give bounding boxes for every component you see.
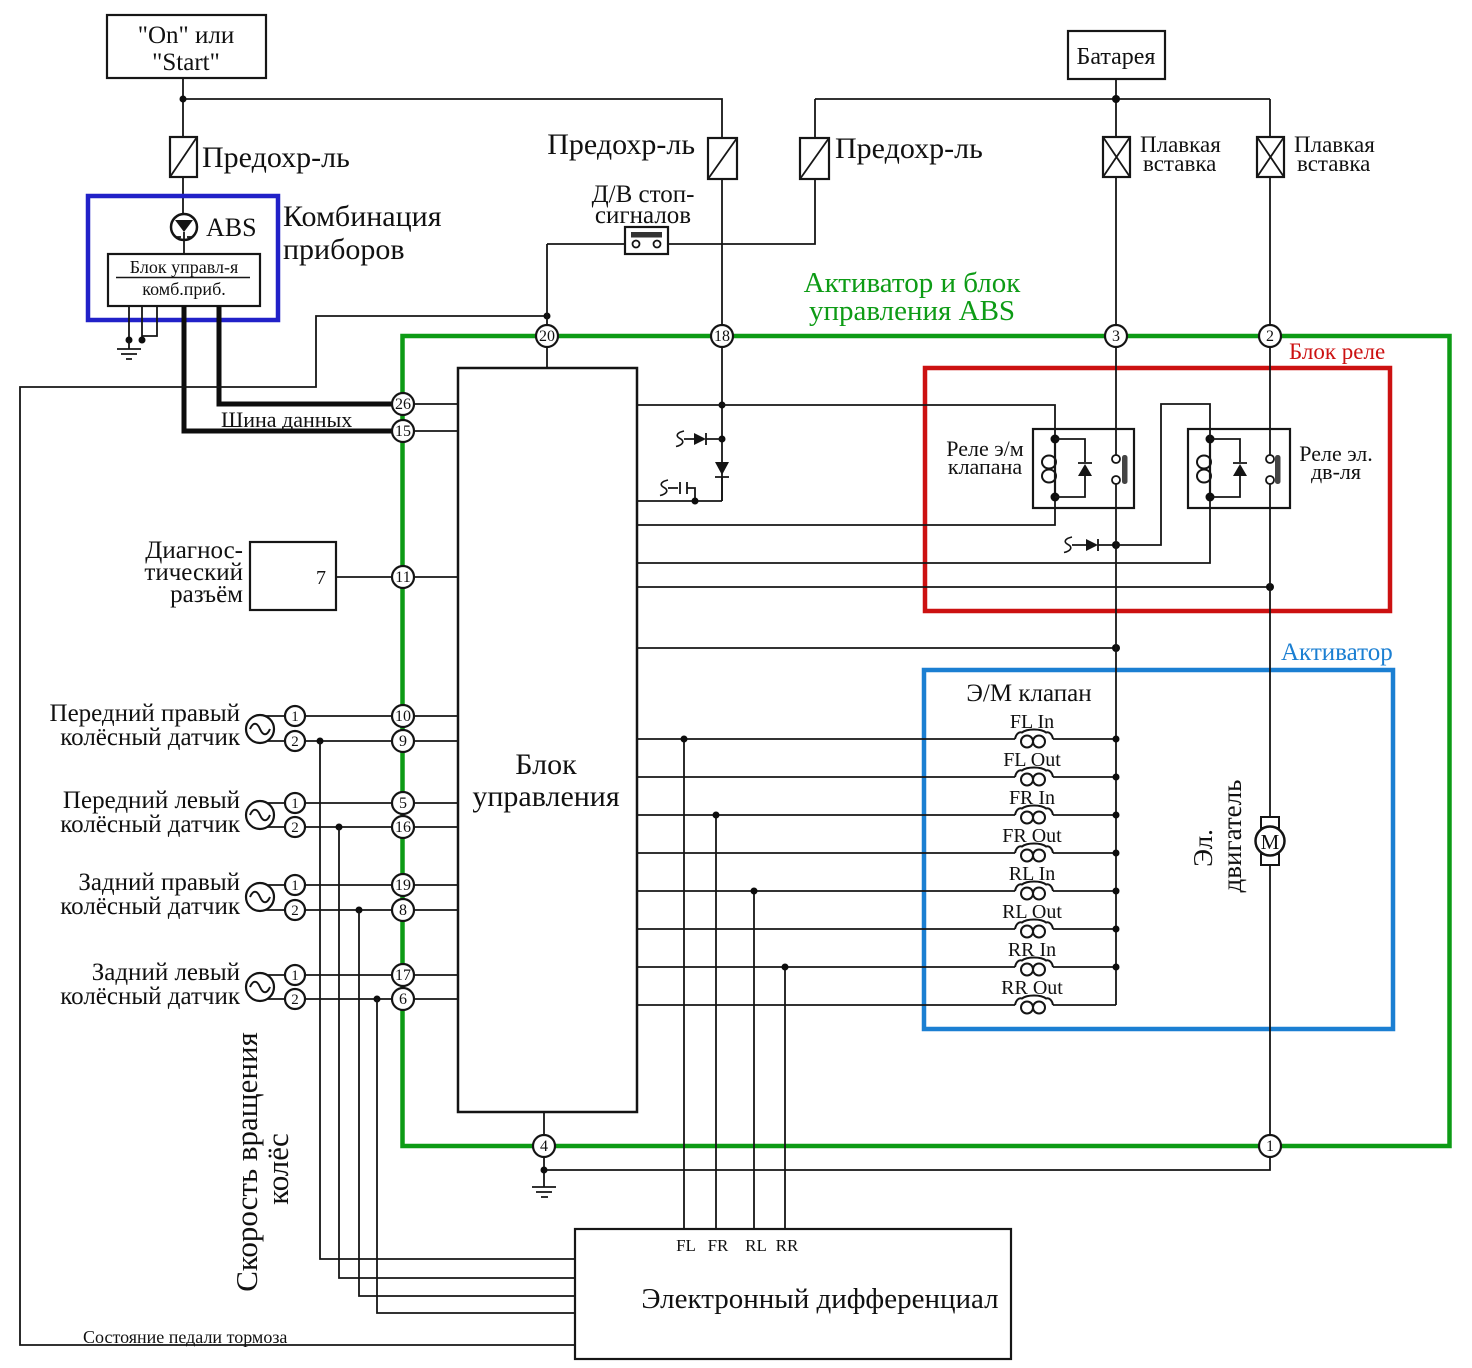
svg-text:Задний правый: Задний правый <box>78 869 240 896</box>
svg-text:управления ABS: управления ABS <box>809 295 1015 327</box>
svg-text:19: 19 <box>395 877 411 894</box>
svg-text:Блок управл-я: Блок управл-я <box>130 257 238 277</box>
svg-text:комб.приб.: комб.приб. <box>142 279 225 299</box>
svg-text:2: 2 <box>291 992 299 1008</box>
svg-text:вставка: вставка <box>1143 151 1216 176</box>
svg-text:Комбинация: Комбинация <box>283 200 442 233</box>
svg-text:15: 15 <box>395 423 411 440</box>
svg-text:Электронный дифференциал: Электронный дифференциал <box>641 1283 998 1315</box>
svg-text:Состояние педали тормоза: Состояние педали тормоза <box>83 1327 287 1347</box>
svg-text:вставка: вставка <box>1297 151 1370 176</box>
svg-text:"Start": "Start" <box>152 49 220 76</box>
svg-text:колёсный датчик: колёсный датчик <box>60 983 241 1010</box>
svg-text:управления: управления <box>472 780 620 813</box>
svg-text:1: 1 <box>291 796 299 812</box>
svg-text:RL In: RL In <box>1009 863 1055 885</box>
svg-text:Блок: Блок <box>515 748 577 781</box>
svg-text:1: 1 <box>291 709 299 725</box>
svg-text:8: 8 <box>399 902 407 919</box>
svg-text:дв-ля: дв-ля <box>1311 459 1361 484</box>
svg-text:1: 1 <box>291 968 299 984</box>
svg-text:M: M <box>1261 830 1280 854</box>
svg-text:Предохр-ль: Предохр-ль <box>202 141 350 174</box>
svg-text:2: 2 <box>291 734 299 750</box>
svg-text:ABS: ABS <box>206 213 257 242</box>
svg-text:FL: FL <box>676 1236 696 1255</box>
svg-text:26: 26 <box>395 396 411 413</box>
svg-text:10: 10 <box>395 708 411 725</box>
svg-text:Шина данных: Шина данных <box>221 407 352 432</box>
svg-text:6: 6 <box>399 991 407 1008</box>
svg-text:18: 18 <box>714 328 730 345</box>
svg-text:RR: RR <box>776 1236 799 1255</box>
svg-text:2: 2 <box>291 903 299 919</box>
svg-text:RL: RL <box>745 1236 767 1255</box>
svg-text:двигатель: двигатель <box>1217 780 1247 893</box>
svg-text:Батарея: Батарея <box>1077 44 1156 70</box>
svg-text:16: 16 <box>395 819 411 836</box>
svg-text:1: 1 <box>1266 1138 1274 1155</box>
svg-text:"On" или: "On" или <box>138 22 234 49</box>
svg-text:Активатор: Активатор <box>1281 639 1393 666</box>
svg-text:сигналов: сигналов <box>595 202 691 229</box>
svg-text:9: 9 <box>399 733 407 750</box>
svg-text:Предохр-ль: Предохр-ль <box>835 132 983 165</box>
svg-text:Предохр-ль: Предохр-ль <box>547 128 695 161</box>
svg-text:2: 2 <box>291 820 299 836</box>
svg-text:FR: FR <box>708 1236 729 1255</box>
svg-text:приборов: приборов <box>283 233 405 266</box>
svg-text:17: 17 <box>395 967 411 984</box>
svg-text:разъём: разъём <box>170 581 243 608</box>
svg-text:5: 5 <box>399 795 407 812</box>
svg-text:Передний левый: Передний левый <box>63 787 240 814</box>
svg-text:Блок реле: Блок реле <box>1289 339 1385 364</box>
svg-text:FL In: FL In <box>1010 711 1054 733</box>
svg-text:колёсный датчик: колёсный датчик <box>60 811 241 838</box>
svg-text:RL Out: RL Out <box>1002 901 1062 923</box>
svg-text:FR Out: FR Out <box>1002 825 1062 847</box>
svg-text:Передний правый: Передний правый <box>50 700 240 727</box>
svg-text:FL Out: FL Out <box>1003 749 1061 771</box>
svg-text:Э/М клапан: Э/М клапан <box>966 680 1091 707</box>
svg-text:RR Out: RR Out <box>1001 977 1063 999</box>
svg-text:4: 4 <box>540 1138 548 1155</box>
svg-text:RR In: RR In <box>1008 939 1056 961</box>
svg-text:Скорость вращения: Скорость вращения <box>229 1032 264 1292</box>
svg-text:колёс: колёс <box>260 1133 295 1205</box>
svg-text:20: 20 <box>539 328 555 345</box>
svg-text:3: 3 <box>1112 328 1120 345</box>
svg-text:клапана: клапана <box>948 454 1022 479</box>
svg-text:7: 7 <box>316 567 326 589</box>
svg-text:колёсный датчик: колёсный датчик <box>60 893 241 920</box>
svg-text:колёсный датчик: колёсный датчик <box>60 724 241 751</box>
svg-text:1: 1 <box>291 878 299 894</box>
svg-text:11: 11 <box>395 569 410 586</box>
svg-text:FR In: FR In <box>1009 787 1055 809</box>
svg-text:Задний левый: Задний левый <box>92 959 240 986</box>
svg-text:Эл.: Эл. <box>1188 829 1218 867</box>
svg-text:2: 2 <box>1266 328 1274 345</box>
